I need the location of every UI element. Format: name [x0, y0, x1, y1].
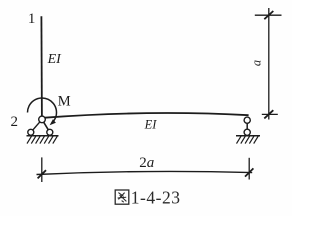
dimension a: bottom extension line: [262, 113, 278, 115]
left support bottom hinge (left): [28, 129, 34, 135]
svg-text:EI: EI: [144, 117, 158, 131]
dimension 2a: right extension line: [248, 158, 250, 180]
moment M arrowhead: [50, 119, 56, 125]
right support ground line: [236, 135, 260, 137]
left support ground hatching: [27, 136, 57, 143]
svg-text:M: M: [58, 94, 71, 110]
dimension 2a: horizontal dimension line: [37, 171, 253, 174]
svg-text:1: 1: [28, 11, 36, 27]
joint pin hinge circle: [39, 116, 46, 123]
left support bottom hinge (right): [47, 129, 53, 135]
left support leg (pin to right roller): [42, 119, 50, 132]
svg-text:a: a: [250, 60, 264, 66]
dimension a: bottom tick slash: [264, 110, 273, 118]
dimension a: vertical dimension line: [268, 8, 270, 120]
right support ground hatching: [237, 136, 259, 143]
dimension a: top tick slash: [264, 11, 273, 19]
moment M arc: [27, 98, 56, 124]
svg-text:1-4-23: 1-4-23: [131, 187, 181, 207]
svg-text:2: 2: [11, 114, 19, 130]
svg-text:2a: 2a: [139, 155, 154, 171]
column member (vertical, node 1 to joint 2): [40, 16, 43, 116]
beam member (joint to right support): [45, 113, 249, 118]
dimension 2a: right tick slash: [245, 168, 253, 176]
dimension 2a: left tick slash: [38, 170, 46, 178]
dimension a: top extension line: [255, 14, 282, 16]
right support link: [246, 120, 248, 132]
svg-text:EI: EI: [47, 52, 63, 67]
right support bottom hinge: [244, 129, 250, 135]
caption: hand-drawn 图 glyph: [115, 190, 129, 204]
left support ground line: [27, 135, 59, 137]
right support top hinge: [244, 117, 250, 123]
left support leg (pin to left roller): [31, 119, 42, 132]
dimension 2a: left extension line: [41, 157, 43, 182]
